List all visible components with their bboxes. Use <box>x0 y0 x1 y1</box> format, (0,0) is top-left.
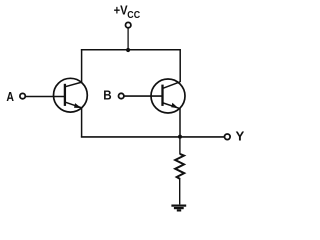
wire top rail <box>81 49 181 51</box>
transistor Q2 <box>151 79 185 113</box>
svg-text:Y: Y <box>236 129 245 144</box>
wire left vertical (rail to Q1 collector) <box>81 49 83 82</box>
wire bottom (emitters to Y) <box>81 136 225 138</box>
ground <box>171 206 186 211</box>
transistor Q1 <box>54 78 88 112</box>
wire Q2 emitter vertical <box>179 108 181 137</box>
wire Vcc terminal to rail <box>127 28 129 50</box>
svg-text:B: B <box>103 88 111 103</box>
wire Q1 emitter vertical <box>81 108 83 138</box>
wire resistor to ground <box>179 179 181 204</box>
svg-text:A: A <box>6 89 14 104</box>
node Vcc junction dot <box>126 48 130 52</box>
resistor R1 <box>175 154 184 179</box>
svg-text:CC: CC <box>127 10 140 21</box>
node output junction dot <box>178 135 182 139</box>
svg-text:+V: +V <box>114 3 128 18</box>
node B <box>103 88 124 103</box>
node A <box>6 89 25 104</box>
wire A to Q1 base <box>26 96 65 98</box>
+Vcc terminal circle <box>126 22 131 27</box>
wire B to Q2 base <box>124 95 162 97</box>
node Y <box>225 129 245 144</box>
+Vcc label <box>114 3 141 21</box>
wire junction to resistor <box>179 137 181 154</box>
wire right vertical (rail to Q2 collector) <box>179 49 181 82</box>
